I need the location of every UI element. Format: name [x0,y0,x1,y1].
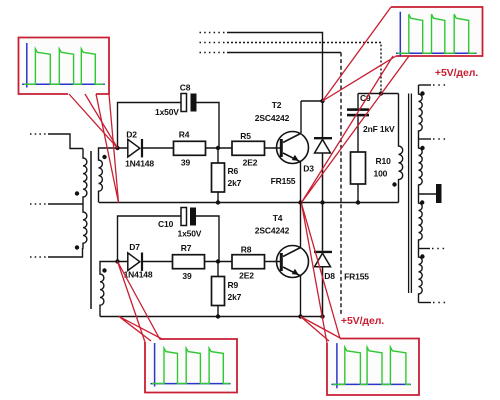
svg-text:2SC4242: 2SC4242 [255,226,290,236]
scope 1 waveform [24,49,104,85]
scope 3 callout funnel to D7 anode [118,262,161,343]
svg-text:1N4148: 1N4148 [125,159,154,169]
wire R7 to junction [205,261,233,263]
svg-text:+5V/дел.: +5V/дел. [341,315,384,327]
svg-text:R9: R9 [228,280,239,290]
TR1 phasing dot secondary lower [102,268,106,272]
scope 3 waveform [152,348,230,383]
node dot R9 bottom bus [216,314,220,318]
svg-text:2k7: 2k7 [228,292,242,302]
svg-text:R8: R8 [241,245,252,255]
svg-text:+5V/дел.: +5V/дел. [435,67,478,79]
TR1 phasing dot secondary upper [102,155,106,159]
svg-text:FR155: FR155 [271,176,296,186]
transformer TR2 core [409,94,412,294]
snubber capacitor C9 plates [347,108,369,111]
TR2 phasing dot primary [392,182,396,186]
scope 4 callout funnel to T4 collector [302,204,341,344]
svg-text:2k7: 2k7 [228,178,242,188]
TR2 phasing dot sec4 [420,254,424,258]
transistor T4 [277,246,309,278]
scope inset box 3 (bottom-left) [118,262,238,393]
svg-text:100: 100 [374,169,388,179]
transformer TR1 driver primary winding [83,149,87,249]
node dot R10 mid bus [356,200,360,204]
wire left stub row y204 [30,203,48,205]
transformer TR1 secondary upper winding [99,148,118,203]
wire row3 stub [200,52,228,54]
transistor T2 [277,132,309,164]
wire T4 collector to mid bus [300,203,302,248]
scope inset box 4 (bottom-right) [301,204,420,396]
scope 1 callout funnel to secondary bottom [96,94,119,203]
svg-text:C10: C10 [158,219,174,229]
svg-text:D7: D7 [129,242,140,252]
scope 2 callout funnel to emitter node [302,56,410,203]
scope 1 callout funnel to D2 anode [69,94,118,148]
wire top feed row1 to collector rail [227,33,323,102]
capacitor C8 symbol [181,94,187,112]
transformer TR1 secondary lower winding [100,262,118,317]
svg-text:39: 39 [182,271,192,281]
TR2 tap 1 [419,84,432,86]
resistor R8 [232,255,265,269]
capacitor C8 branch wires [118,103,220,149]
wire node 323-101 to T2 collector [301,101,323,133]
TR1 phasing dot primary lower [75,245,79,249]
scope 4 waveform [333,347,410,384]
TR2 tap bottom [419,302,432,304]
node dot top rail feed [379,91,383,95]
svg-text:1x50V: 1x50V [178,229,202,239]
resistor R9 vertical [217,262,219,317]
resistor R6 vertical [217,148,219,203]
svg-text:2SC4242: 2SC4242 [255,113,290,123]
node dot collector rail [320,99,324,103]
capacitor C10 branch wires [118,216,220,262]
TR2 phasing dot sec2 [420,146,424,150]
svg-text:R7: R7 [181,243,192,253]
wire top feed row1 dotted leader [200,32,228,34]
wire top rail [358,93,399,95]
scope 2 callout funnel to collector node [323,7,397,101]
wire left stub row y134 [30,133,48,135]
ground bar [436,184,442,203]
svg-text:R4: R4 [179,130,190,140]
scope 3 callout funnel to bottom bus [119,317,163,342]
diode D8 [314,203,332,317]
svg-text:2E2: 2E2 [239,270,254,280]
scope inset box 1 (top-left) [19,38,119,203]
svg-text:1N4148: 1N4148 [124,270,153,280]
wire R5 to T2 base [265,147,282,149]
scope 2 axes [396,12,477,57]
resistor R4 [174,141,206,155]
node dot R6 mid bus [216,200,220,204]
node dot R7-R8-R9 junction [216,259,220,263]
TR1 phasing dot primary upper [75,191,79,195]
wire row2 dotted supply line [200,42,228,44]
svg-text:C8: C8 [180,83,191,93]
scope 3 axes [151,343,231,387]
wire mid bus (switching node) [99,202,399,204]
TR2 phasing dot sec1 [420,91,424,95]
resistor R7 [173,255,205,269]
svg-text:D8: D8 [324,271,335,281]
node dot D3 mid bus [320,200,324,204]
TR2 tap 4 [419,248,431,250]
resistor R5 [232,141,265,155]
wire T4 emitter to bottom bus [300,276,302,317]
TR2 phasing dot sec3 [420,200,424,204]
svg-text:1x50V: 1x50V [155,107,179,117]
scope 1 axes [22,43,105,88]
wire T2 emitter to mid bus [300,162,302,203]
svg-text:R5: R5 [240,131,251,141]
resistor R10 vertical [351,152,366,184]
wire bottom bus [100,316,323,318]
TR2 tap ground [419,193,437,195]
diode D7 symbol [118,253,173,271]
node dot T4 emitter bottom bus [298,314,302,318]
svg-text:39: 39 [181,158,191,168]
svg-text:T2: T2 [272,100,282,110]
wire R4 to junction [206,147,233,149]
svg-text:FR155: FR155 [344,272,369,282]
capacitor C10 symbol [181,208,187,226]
wire left stub row y257 [30,256,48,258]
svg-text:2nF 1kV: 2nF 1kV [363,124,395,134]
svg-text:D3: D3 [303,164,314,174]
wire R8 to T4 base [265,261,282,263]
scope 4 axes [332,343,411,388]
transformer TR2 primary winding [399,94,403,203]
node dot D8 bottom bus [320,314,324,318]
transformer TR1 core [90,151,92,309]
svg-text:2E2: 2E2 [243,158,258,168]
node dot D2 anode [115,146,119,150]
scope 4 callout funnel to T4 emitter [301,317,342,342]
svg-text:R6: R6 [228,166,239,176]
svg-text:T4: T4 [273,213,283,223]
TR2 tap 2 [419,138,432,140]
node dot R4-R5-R6 junction [216,146,220,150]
node dot T2 emitter mid bus [298,200,302,204]
diode D2 symbol [118,139,174,157]
diode D3 [314,101,332,203]
snubber capacitor C9 wires [357,94,359,203]
scope 2 waveform [398,14,476,53]
svg-text:R10: R10 [376,156,392,166]
scope inset box 2 (top-right) [302,7,483,203]
svg-text:D2: D2 [126,130,137,140]
wire dashed isolation line [340,53,342,317]
transformer TR2 secondary winding with taps [419,85,449,303]
node dot D7 anode [115,259,119,263]
